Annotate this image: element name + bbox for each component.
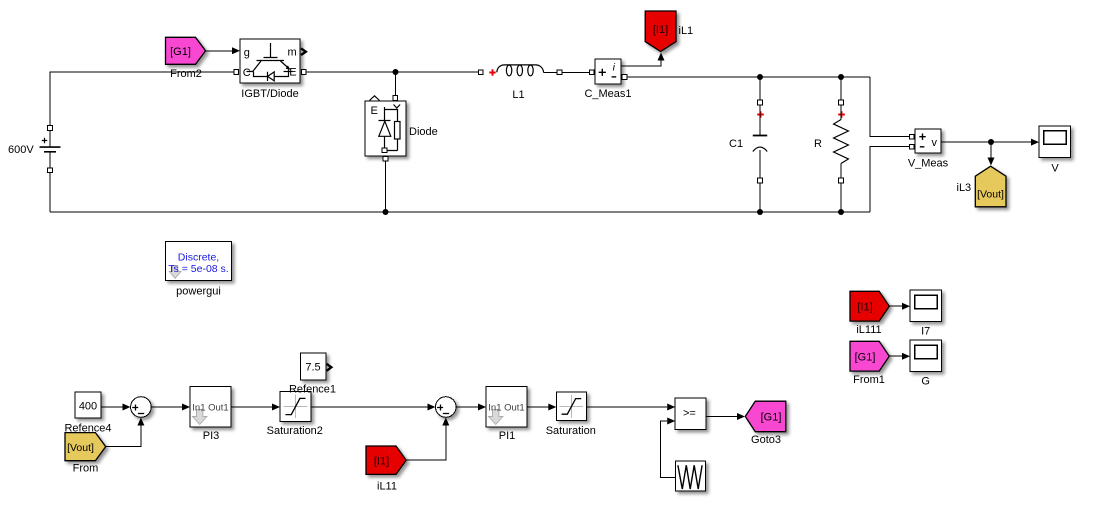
IGBT gate lead — [264, 43, 278, 58]
svg-text:[G1]: [G1] — [855, 351, 876, 363]
wire: L1 to current measurement — [562, 71, 590, 73]
wire: load top to V_Meas plus — [870, 77, 910, 137]
DC voltage source 600V — [40, 126, 61, 173]
wire: relational operator to Goto3 — [706, 413, 745, 420]
svg-text:Discrete,: Discrete, — [178, 251, 219, 263]
wire: junction down to Vout goto — [988, 142, 995, 166]
svg-text:>=: >= — [683, 407, 696, 419]
constant Refence4 value 400 — [75, 392, 101, 418]
IGBT collector slant — [247, 61, 262, 72]
Diode D1 block — [365, 96, 406, 156]
snubber resistor inside — [385, 110, 398, 122]
wire: top rail from DC source to IGBT collector — [50, 72, 236, 126]
svg-text:400: 400 — [79, 400, 97, 412]
current measurement C_Meas1 — [590, 59, 627, 84]
From tag iL11 [I1] — [366, 446, 406, 474]
svg-text:iL11: iL11 — [377, 481, 397, 493]
svg-text:7.5: 7.5 — [305, 361, 320, 373]
Diode bottom port — [383, 156, 388, 161]
output chevron m — [301, 48, 306, 55]
svg-text:V_Meas: V_Meas — [908, 158, 949, 170]
node: R top junction — [838, 74, 844, 80]
From tag From2 [G1] — [166, 37, 206, 64]
wire: triangle wave to relational operator second input — [661, 418, 676, 478]
From tag From1 [G1] — [850, 341, 889, 371]
svg-text:g: g — [244, 47, 250, 59]
svg-text:C1: C1 — [729, 138, 743, 150]
svg-text:E: E — [289, 66, 296, 78]
svg-text:m: m — [288, 47, 297, 59]
node: C1 bottom junction — [757, 209, 763, 215]
svg-text:G: G — [921, 376, 930, 388]
scope G — [910, 340, 942, 372]
powergui block — [165, 241, 231, 280]
node: diode branch bottom junction — [383, 209, 389, 215]
wire: C_Meas1 minus output to load rail — [626, 76, 870, 78]
resistor R branch — [834, 77, 849, 212]
wire: iL111 to scope I7 — [890, 303, 911, 310]
node: C1 top junction — [757, 74, 763, 80]
node: scope wire junction — [988, 139, 994, 145]
svg-text:R: R — [814, 138, 822, 150]
svg-text:Saturation: Saturation — [546, 425, 596, 437]
svg-text:Diode: Diode — [409, 126, 438, 138]
wire: From1 to scope G — [890, 353, 911, 360]
svg-text:v: v — [932, 137, 938, 149]
sum junction S2 — [436, 397, 457, 418]
svg-text:IGBT/Diode: IGBT/Diode — [241, 88, 298, 100]
svg-text:In1 Out1: In1 Out1 — [488, 403, 524, 414]
node: R bottom junction — [838, 209, 844, 215]
wire: Diode block to bottom rail — [385, 161, 387, 212]
svg-text:From1: From1 — [853, 374, 885, 386]
svg-text:C_Meas1: C_Meas1 — [584, 88, 631, 100]
wire: From2 to IGBT gate — [206, 47, 240, 54]
svg-text:Goto3: Goto3 — [751, 434, 781, 446]
wire: load bottom to V_Meas minus — [870, 147, 910, 212]
capacitor C1 branch — [753, 77, 767, 212]
wire: C_Meas1 i output up to iL1 goto — [621, 53, 665, 67]
wire: sum1 to PI3 — [151, 404, 190, 411]
svg-text:Ts = 5e-08 s.: Ts = 5e-08 s. — [168, 263, 228, 275]
saturation block Saturation — [556, 392, 586, 421]
scope V — [1039, 126, 1071, 158]
svg-text:I7: I7 — [921, 326, 930, 338]
wire: IGBT emitter to inductor — [306, 71, 478, 73]
IGBT right port E — [301, 70, 306, 75]
IGBT emitter slant with arrow — [281, 61, 290, 69]
wire: V_Meas output to scope V — [941, 139, 1039, 146]
svg-text:In1 Out1: In1 Out1 — [192, 403, 228, 414]
svg-text:L1: L1 — [512, 89, 524, 101]
wire: PI1 to Saturation — [527, 404, 556, 411]
svg-text:powergui: powergui — [176, 286, 221, 298]
Goto tag [Vout] — [975, 166, 1006, 207]
repeating sequence (triangle wave) source — [675, 461, 705, 491]
anti-parallel diode loop — [254, 70, 289, 77]
From tag [Vout] — [65, 433, 106, 461]
wire: 400 to sum1 — [101, 404, 131, 411]
scope I7 — [910, 290, 942, 322]
wire: Saturation2 to sum2 — [311, 404, 436, 411]
svg-text:Saturation2: Saturation2 — [267, 425, 323, 437]
svg-text:[Vout]: [Vout] — [67, 442, 94, 454]
subsystem PI3 — [190, 387, 231, 428]
IGBT body bar — [257, 60, 285, 62]
svg-text:iL1: iL1 — [679, 25, 694, 37]
Goto tag Goto3 [G1] — [745, 401, 786, 432]
IGBT left port C — [234, 70, 239, 75]
svg-text:PI1: PI1 — [499, 430, 516, 442]
wire: bottom return rail — [50, 211, 870, 213]
From tag iL111 [I1] — [850, 291, 889, 321]
svg-text:[I1]: [I1] — [857, 301, 872, 313]
relational operator >= — [675, 398, 706, 429]
node: diode branch top junction — [393, 69, 399, 75]
svg-text:PI3: PI3 — [203, 430, 220, 442]
inductor L1 — [479, 65, 562, 76]
wire: left rail bottom from DC source to ground rail — [49, 173, 51, 213]
diode symbol inside — [379, 107, 391, 121]
svg-text:V: V — [1051, 163, 1059, 175]
IGBT/Diode U1 — [240, 39, 306, 83]
subsystem PI1 — [486, 387, 527, 428]
wire: PI3 to Saturation2 — [231, 404, 280, 411]
wire: junction down to Diode block — [395, 72, 397, 96]
svg-text:[G1]: [G1] — [761, 412, 782, 424]
wire: Saturation to relational operator — [586, 404, 675, 411]
voltage measurement V_Meas — [910, 129, 941, 153]
svg-text:From: From — [73, 463, 99, 475]
svg-text:iL3: iL3 — [957, 182, 972, 194]
svg-text:C: C — [243, 67, 251, 79]
constant Refence1 value 7.5 — [300, 353, 331, 380]
svg-text:iL111: iL111 — [856, 324, 881, 336]
svg-text:Refence1: Refence1 — [289, 383, 336, 395]
svg-text:[Vout]: [Vout] — [977, 189, 1004, 201]
svg-text:600V: 600V — [8, 144, 34, 156]
svg-text:From2: From2 — [170, 68, 202, 80]
svg-text:[I1]: [I1] — [653, 24, 668, 36]
svg-text:[G1]: [G1] — [170, 46, 191, 58]
Goto tag iL1 [I1] — [645, 11, 676, 52]
sum junction S1 — [131, 397, 152, 418]
svg-text:E: E — [371, 105, 378, 117]
svg-text:[I1]: [I1] — [374, 455, 389, 467]
wire: sum2 to PI1 — [456, 404, 486, 411]
wire: From tag up to sum1 minus input — [106, 418, 144, 447]
wire: iL11 tag up to sum2 minus input — [407, 418, 450, 461]
saturation block Saturation2 — [280, 391, 311, 421]
